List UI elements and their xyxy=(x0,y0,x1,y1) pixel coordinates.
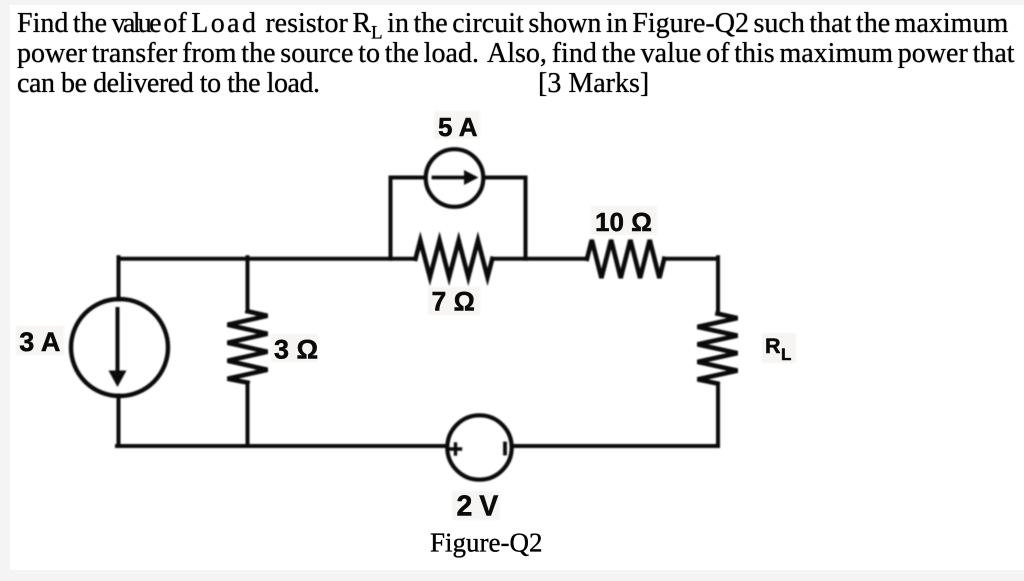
wire: left vertical above 3A source xyxy=(117,257,121,299)
svg-text:3 A: 3 A xyxy=(19,327,60,357)
wire: 3 ohm branch upper lead xyxy=(246,257,250,311)
wire: 5A loop left vertical riser xyxy=(389,178,393,259)
wire: right vertical upper lead to RL xyxy=(716,257,720,313)
wire: 5A loop top right horizontal xyxy=(485,176,526,180)
svg-text:10 Ω: 10 Ω xyxy=(595,207,652,237)
resistor RL vertical zigzag xyxy=(698,314,738,384)
marks label xyxy=(538,68,649,99)
problem text line 3 xyxy=(17,68,1017,99)
label background 10 ohm xyxy=(591,206,657,235)
current source I2 3A circle xyxy=(71,299,168,396)
problem text line 1 xyxy=(17,8,1017,49)
label background 3 A xyxy=(16,326,64,355)
wire: 5A loop right vertical riser xyxy=(524,178,528,259)
wire: 5A loop top left horizontal xyxy=(391,176,426,180)
wire: top main horizontal between 10ohm and RL branch xyxy=(664,257,718,261)
svg-text:3 Ω: 3 Ω xyxy=(274,335,318,365)
label background RL xyxy=(762,333,796,363)
problem text line 2 xyxy=(17,38,1017,69)
label background 5 A xyxy=(434,111,480,139)
left gray border strip xyxy=(0,5,10,570)
current source I1 5A arrow shaft xyxy=(434,176,467,180)
voltage source V1 plus sign xyxy=(451,444,461,454)
wire: top main horizontal between 7ohm and 10ohm xyxy=(492,257,587,261)
current source I2 3A arrow head xyxy=(109,371,127,388)
wire: bottom horizontal left of 2V source xyxy=(117,444,446,448)
wire: right vertical lower lead from RL xyxy=(716,384,720,447)
wire: left vertical below 3A source xyxy=(117,396,121,447)
label background 7 ohm xyxy=(428,287,480,315)
bottom gray border strip xyxy=(0,570,1024,581)
svg-text:Figure-Q2: Figure-Q2 xyxy=(430,528,542,558)
voltage source V1 2V circle xyxy=(447,415,511,479)
label background 3 ohm xyxy=(271,334,317,362)
wire: top main horizontal left segment (node between 3A, 3ohm and 7ohm) xyxy=(119,257,416,261)
svg-text:L: L xyxy=(781,345,791,364)
svg-text:5 A: 5 A xyxy=(438,112,478,142)
current source I2 3A arrow shaft xyxy=(116,309,120,372)
wire: bottom horizontal right of 2V source xyxy=(513,444,718,448)
svg-text:7 Ω: 7 Ω xyxy=(432,287,475,317)
label background 2 V xyxy=(452,491,500,520)
svg-text:2 V: 2 V xyxy=(457,491,499,523)
voltage source V1 minus tick xyxy=(503,444,507,454)
current source I1 5A circle xyxy=(426,149,484,207)
wire: 3 ohm branch lower lead xyxy=(246,383,250,446)
resistor R 3ohm vertical zigzag xyxy=(228,311,268,382)
resistor R 7ohm zigzag xyxy=(416,241,493,278)
top gray border strip xyxy=(0,0,1024,5)
svg-text:R: R xyxy=(765,334,781,358)
resistor R 10ohm zigzag xyxy=(587,240,664,278)
current source I1 5A arrow head xyxy=(464,170,479,185)
